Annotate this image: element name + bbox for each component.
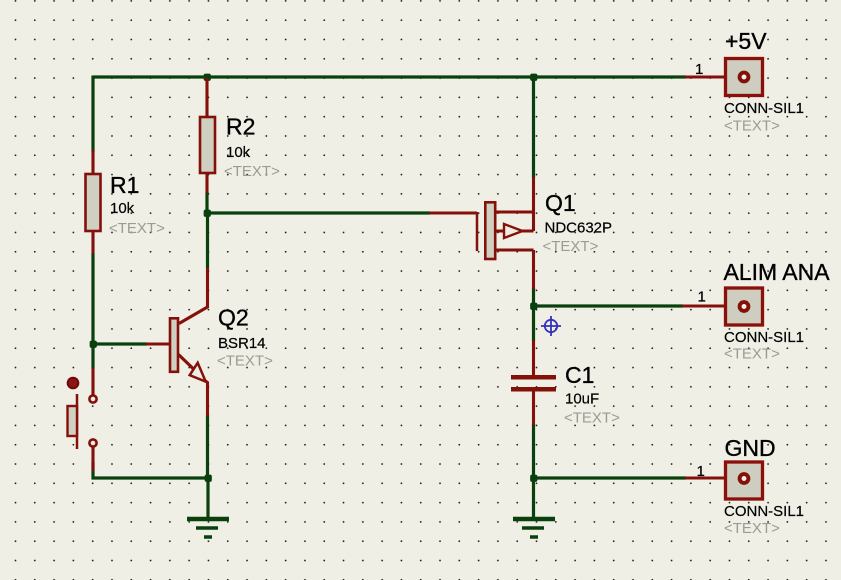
svg-text:Q1: Q1 — [545, 190, 576, 216]
svg-text:<TEXT>: <TEXT> — [724, 520, 780, 537]
svg-text:10k: 10k — [110, 200, 135, 217]
svg-text:<TEXT>: <TEXT> — [217, 353, 273, 370]
svg-text:<TEXT>: <TEXT> — [224, 163, 280, 180]
svg-text:R2: R2 — [226, 114, 255, 140]
svg-text:1: 1 — [697, 463, 705, 480]
svg-text:C1: C1 — [565, 362, 594, 388]
svg-text:BSR14: BSR14 — [218, 335, 266, 352]
svg-text:CONN-SIL1: CONN-SIL1 — [724, 329, 804, 346]
svg-text:<TEXT>: <TEXT> — [543, 238, 599, 255]
svg-text:R1: R1 — [110, 172, 139, 198]
svg-text:NDC632P: NDC632P — [545, 220, 613, 237]
svg-text:<TEXT>: <TEXT> — [564, 410, 620, 427]
svg-text:10uF: 10uF — [565, 391, 599, 408]
svg-text:<TEXT>: <TEXT> — [724, 346, 780, 363]
svg-text:<TEXT>: <TEXT> — [724, 118, 780, 135]
svg-text:CONN-SIL1: CONN-SIL1 — [724, 503, 804, 520]
svg-text:1: 1 — [698, 289, 706, 306]
svg-text:ALIM ANA: ALIM ANA — [724, 259, 831, 285]
svg-text:10k: 10k — [226, 144, 251, 161]
svg-text:Q2: Q2 — [218, 305, 249, 331]
svg-text:GND: GND — [725, 435, 776, 461]
svg-text:<TEXT>: <TEXT> — [109, 220, 165, 237]
svg-text:+5V: +5V — [725, 28, 767, 54]
svg-text:1: 1 — [695, 61, 703, 78]
svg-text:CONN-SIL1: CONN-SIL1 — [724, 100, 804, 117]
